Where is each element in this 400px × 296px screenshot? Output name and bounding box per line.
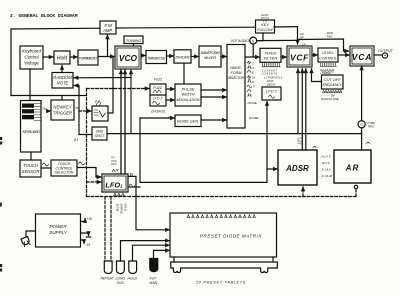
curl AR corner <box>367 142 370 143</box>
wire VCO mod bus 2 <box>124 70 126 174</box>
svg-text:TRACKING: TRACKING <box>321 70 334 73</box>
note above key follow <box>260 13 270 23</box>
box pulse width modulation <box>175 84 201 106</box>
AC plug <box>21 231 35 247</box>
box portamento <box>78 50 98 65</box>
svg-text:Voltage: Voltage <box>24 61 39 66</box>
box level control <box>318 48 338 62</box>
wire pitch bend out <box>108 57 113 114</box>
tiny rotated label by ADSR feeds <box>297 138 304 145</box>
dashed trigger bus bottom <box>87 196 357 198</box>
box FM amp <box>100 21 116 34</box>
tiny rotated labels above pedals <box>116 204 128 215</box>
svg-text:HP: HP <box>300 32 304 36</box>
svg-text:WAVEFORM: WAVEFORM <box>201 51 221 55</box>
svg-text:TRIG: TRIG <box>368 125 376 129</box>
wire LFO1 sine out <box>128 186 140 188</box>
label long sus <box>116 277 126 286</box>
svg-text:SENSOR: SENSOR <box>22 169 40 174</box>
wire one-shot to random note <box>74 86 92 135</box>
wire PORTAMENTO to VCO <box>98 56 114 58</box>
dashed into AR bottom <box>355 189 357 197</box>
wire noise to selector <box>201 119 226 121</box>
footswitch long sus <box>117 261 125 274</box>
box waveform selector <box>227 45 245 129</box>
svg-text:CHORUS: CHORUS <box>151 110 166 114</box>
wire top audio bus mid <box>116 26 256 29</box>
svg-text:FUZZ: FUZZ <box>154 78 163 82</box>
wire divider to mixer <box>191 56 198 58</box>
svg-text:TUNING: TUNING <box>126 38 141 43</box>
svg-text:NOISE GEN.: NOISE GEN. <box>177 120 199 124</box>
wire vco square to random note <box>74 77 131 79</box>
svg-text:HOLD: HOLD <box>124 204 128 211</box>
svg-text:NOISE: NOISE <box>249 116 259 120</box>
svg-text:FREQUENCY: FREQUENCY <box>323 83 343 87</box>
box random note <box>52 73 73 89</box>
svg-text:ONE: ONE <box>96 130 104 134</box>
pitch bend box <box>92 103 108 122</box>
svg-text:KEY: KEY <box>261 23 269 27</box>
svg-text:8': 8' <box>252 71 254 75</box>
wire VCA down to switch <box>361 66 363 121</box>
power -15 output <box>81 240 91 247</box>
svg-text:RANDOM: RANDOM <box>53 75 72 80</box>
svg-text:GATE: GATE <box>297 138 301 145</box>
diode row <box>187 214 255 217</box>
svg-text:16': 16' <box>252 76 256 80</box>
page edge marks <box>0 137 2 272</box>
tiny marks above level control <box>327 31 333 38</box>
tiny marks above VCF <box>300 32 306 46</box>
svg-text:AR: AR <box>345 164 360 173</box>
wire VCF mod up <box>297 69 299 133</box>
dashed enclosure left edge <box>86 89 88 197</box>
svg-text:S: S <box>360 122 363 127</box>
sine glyph <box>79 162 85 165</box>
wire switch to AR <box>361 128 363 150</box>
svg-text:Keyboard: Keyboard <box>22 49 41 54</box>
svg-text:NOISE: NOISE <box>248 101 258 105</box>
box tuning <box>124 36 143 44</box>
svg-text:VCO: VCO <box>119 53 138 63</box>
wire level control to VCA <box>338 54 349 56</box>
wire cutoff to VCF <box>312 69 322 82</box>
label vcf man <box>150 277 159 286</box>
box waveform mixer <box>199 46 221 67</box>
svg-text:TOUCH: TOUCH <box>23 163 39 168</box>
LFO1 double box <box>102 174 128 192</box>
wire LFO1 square out down to matrix <box>128 176 169 229</box>
sine glyph LFO1 out <box>129 184 135 187</box>
box touch control selector <box>51 160 77 176</box>
box newkey trigger <box>51 100 74 120</box>
box key follow <box>256 20 275 33</box>
dashed repeat wires <box>104 197 106 262</box>
svg-text:PORTAMENTO: PORTAMENTO <box>79 56 97 60</box>
svg-text:LFO 2: LFO 2 <box>266 89 278 94</box>
fuzz / LFO3 box <box>150 84 166 106</box>
svg-text:MAN.: MAN. <box>150 281 159 285</box>
svg-text:LP: LP <box>302 42 306 46</box>
svg-text:VCF: VCF <box>111 162 117 166</box>
wire transpose to divider <box>167 55 174 57</box>
svg-text:DECAY: DECAY <box>267 82 276 86</box>
op-amp VCO U1 <box>115 46 141 69</box>
wire key follow drop <box>257 33 263 41</box>
svg-text:x 2 FOR VCO 2: x 2 FOR VCO 2 <box>263 76 283 80</box>
label kybd trig <box>368 121 376 129</box>
wire selector to LFO1 <box>77 168 101 178</box>
svg-text:SHOT: SHOT <box>95 134 106 138</box>
wire VCA to output jack <box>374 54 382 56</box>
svg-text:FILTER: FILTER <box>264 56 278 61</box>
power ground output <box>81 233 91 237</box>
svg-text:PRESET DIODE MATRIX: PRESET DIODE MATRIX <box>200 234 262 239</box>
wire branch to VCA <box>298 39 349 51</box>
op-amp VCF U2 <box>287 46 312 67</box>
svg-text:2 3 4 5 6 7 8: 2 3 4 5 6 7 8 <box>261 72 277 76</box>
wire lfo3 to pwm <box>166 99 174 101</box>
svg-text:BP: BP <box>300 36 304 40</box>
svg-text:VCA: VCA <box>352 52 373 62</box>
curl ADSR corner <box>313 146 316 147</box>
svg-text:SLOW: SLOW <box>116 204 120 212</box>
svg-text:CUT OFF: CUT OFF <box>324 78 341 82</box>
svg-text:NEWKEY: NEWKEY <box>53 105 72 110</box>
op-amp VCA U3 <box>350 46 374 66</box>
box AR <box>334 150 371 183</box>
dashed newkey TR to pitch bend <box>79 110 91 112</box>
wire drop into newkey trigger <box>61 96 63 100</box>
dashed into ADSR bottom <box>302 187 304 197</box>
svg-text:←DCY 0: ←DCY 0 <box>319 161 330 165</box>
box transpose <box>146 51 167 64</box>
svg-text:WIDTH: WIDTH <box>181 92 194 97</box>
svg-text:LEVEL: LEVEL <box>322 51 333 55</box>
tiny notes above LFO1 <box>111 156 117 167</box>
wire selector to fixed filter <box>245 56 259 58</box>
ADSR parameter labels <box>319 155 333 179</box>
glyphs above LFO1 <box>112 169 118 171</box>
footswitch vcf manual filled <box>150 259 158 272</box>
wire top audio bus left <box>11 28 100 95</box>
wire control bus long <box>107 133 362 135</box>
wire modulation loop <box>140 102 267 183</box>
svg-text:←S 1-4.8: ←S 1-4.8 <box>319 168 331 172</box>
hatch below cutoff <box>323 90 342 92</box>
wire fuzz to pwm <box>166 88 174 90</box>
hatch below level control <box>320 63 336 66</box>
wire S drop to filter line <box>252 44 254 57</box>
box divider <box>174 50 191 63</box>
svg-text:PED: PED <box>327 34 332 38</box>
box fixed filter <box>260 48 281 62</box>
wire ADSR to VCF 1 <box>301 69 303 150</box>
wire noise feed <box>140 117 174 119</box>
wire branch to ADSR left <box>267 168 277 170</box>
svg-text:FOLLOW: FOLLOW <box>257 28 273 32</box>
svg-text:V: V <box>253 85 255 89</box>
wire divider down to PWM <box>183 63 185 84</box>
node output jack <box>382 53 387 58</box>
box one shot <box>92 127 107 140</box>
svg-text:MANUAL RGE: MANUAL RGE <box>321 97 339 101</box>
svg-text:SELECTOR: SELECTOR <box>228 76 245 80</box>
wire fixed filter to VCF <box>281 56 286 58</box>
node S switch keyboard trig <box>358 121 365 128</box>
wire vcf audio to vcf column <box>257 39 298 41</box>
svg-text:FORM: FORM <box>231 71 243 75</box>
svg-text:KEYBOARD: KEYBOARD <box>23 129 41 134</box>
svg-text:Control: Control <box>24 55 39 60</box>
wire sensor to selector <box>41 167 51 169</box>
wire drop into VCF top <box>297 27 299 44</box>
svg-text:CONTROL: CONTROL <box>319 56 337 60</box>
svg-text:TR: TR <box>75 107 80 111</box>
hatch below fixed filter <box>262 63 280 67</box>
wire KCV down to keyboard <box>29 69 31 101</box>
svg-text:S: S <box>252 39 255 43</box>
wire VCO to transpose <box>141 55 145 57</box>
svg-text:MIXER: MIXER <box>204 56 216 60</box>
wire keyboard CV horizontal <box>11 95 87 97</box>
dashed trigger to fuzz <box>87 88 150 90</box>
triangle marks below LFO1 <box>114 193 125 196</box>
dashed trigger to LFO1 <box>87 181 102 183</box>
wire tap up to FM amp <box>107 35 109 57</box>
svg-text:VCF: VCF <box>290 53 309 63</box>
svg-text:VCF AUDIO: VCF AUDIO <box>231 39 250 43</box>
svg-text:AMP.: AMP. <box>102 28 113 33</box>
wire KCV to HOLD <box>43 56 53 58</box>
svg-text:WAVE-: WAVE- <box>230 66 243 70</box>
svg-text:SUPPLY: SUPPLY <box>49 230 68 235</box>
svg-text:TRANSPOSE: TRANSPOSE <box>147 56 166 60</box>
svg-text:2. GENERAL BLOCK DIAGRAM: 2. GENERAL BLOCK DIAGRAM <box>10 13 78 19</box>
svg-text:SELECTOR: SELECTOR <box>55 171 74 175</box>
square glyph LFO1 out <box>129 174 133 177</box>
box cut off frequency <box>322 75 344 89</box>
svg-text:POWER: POWER <box>49 224 67 229</box>
keyboard <box>21 101 42 153</box>
wire keyboard to touch sensor <box>30 152 32 160</box>
node junction <box>135 186 137 188</box>
selector output glyph column <box>247 61 256 96</box>
wire HOLD to PORTAMENTO <box>70 56 77 58</box>
wire VCO mod bus 1 <box>120 70 122 174</box>
wire VCO mod bus 3 <box>130 70 132 133</box>
footswitch hold <box>129 261 137 274</box>
svg-text:MODULATION: MODULATION <box>177 98 200 102</box>
svg-text:Hold: Hold <box>57 56 68 62</box>
svg-text:20 PRESET TABLETS: 20 PRESET TABLETS <box>195 281 246 285</box>
box keyboard control voltage <box>20 46 43 69</box>
node S switch vcf audio <box>250 37 257 44</box>
wire VCF to level control <box>312 54 317 56</box>
wire vcf man to matrix <box>154 250 170 258</box>
box LFO2 <box>262 87 281 100</box>
svg-text:HOLD: HOLD <box>128 277 138 281</box>
svg-text:4': 4' <box>253 66 255 70</box>
power +15 output <box>81 217 93 222</box>
footswitch repeat <box>104 261 112 274</box>
svg-text:NOTE: NOTE <box>57 81 69 86</box>
tiny notes above LFO2 <box>263 76 283 87</box>
wire pwm to selector 2 <box>201 96 226 98</box>
box touch sensor <box>20 160 41 177</box>
wire hold to matrix <box>133 245 170 261</box>
box preset diode matrix <box>170 213 277 257</box>
svg-text:2': 2' <box>252 62 254 66</box>
svg-text:LONG: LONG <box>116 277 126 281</box>
svg-text:8': 8' <box>253 80 255 84</box>
box hold <box>54 51 70 64</box>
wire pwm to selector 1 <box>201 89 226 91</box>
preset tablets strip <box>171 257 278 273</box>
svg-text:-15: -15 <box>86 243 91 247</box>
wire mixer to selector <box>221 56 226 58</box>
wire ADSR to VCF 2 <box>305 69 307 150</box>
svg-text:DIVIDER: DIVIDER <box>176 56 190 60</box>
svg-text:LFO 3: LFO 3 <box>153 97 163 101</box>
svg-text:←A 2-2.3: ←A 2-2.3 <box>319 155 331 159</box>
box ADSR <box>278 150 317 185</box>
svg-text:REPEAT: REPEAT <box>101 277 115 281</box>
wire tuning to VCO <box>133 44 135 47</box>
wire top audio bus right <box>274 26 298 28</box>
box noise generator <box>175 115 201 127</box>
svg-text:FUZZ: FUZZ <box>153 86 163 90</box>
svg-text:TRIGGER: TRIGGER <box>53 110 72 115</box>
node AR bottom <box>354 185 357 188</box>
svg-text:VCF: VCF <box>150 277 158 281</box>
svg-text:ADSR: ADSR <box>285 164 309 173</box>
svg-text:←R .02-36: ←R .02-36 <box>319 174 333 178</box>
sine glyph <box>43 163 49 166</box>
wire long sus to matrix <box>121 241 170 261</box>
wire random note to hold <box>61 66 63 73</box>
svg-text:MOD: MOD <box>327 31 333 35</box>
svg-text:LFO1: LFO1 <box>105 181 123 190</box>
svg-text:(L): (L) <box>74 138 78 142</box>
label P.B. <box>95 100 101 104</box>
svg-text:SUS.: SUS. <box>117 281 125 285</box>
svg-text:P.B.: P.B. <box>95 100 101 104</box>
box power supply <box>36 214 81 247</box>
svg-text:SAMPLE: SAMPLE <box>120 204 124 215</box>
wire keyboard to newkey trigger <box>47 110 51 112</box>
svg-text:+15: +15 <box>87 217 93 221</box>
